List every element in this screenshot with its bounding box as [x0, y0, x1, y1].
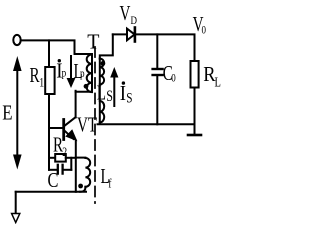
svg-text:p: p: [62, 68, 67, 80]
svg-text:V: V: [120, 2, 131, 25]
svg-text:S: S: [126, 89, 132, 106]
svg-text:2: 2: [62, 146, 67, 160]
svg-text:1: 1: [39, 76, 44, 90]
svg-text:L: L: [97, 81, 106, 104]
svg-text:p: p: [80, 68, 85, 80]
svg-text:L: L: [215, 74, 221, 90]
svg-text:T: T: [87, 31, 100, 54]
svg-text:S: S: [106, 87, 113, 105]
svg-text:0: 0: [171, 72, 175, 84]
svg-text:0: 0: [202, 24, 206, 36]
svg-text:f: f: [108, 177, 111, 191]
svg-text:VT: VT: [77, 113, 97, 136]
svg-text:E: E: [2, 102, 12, 125]
svg-text:C: C: [48, 169, 59, 192]
svg-text:D: D: [131, 15, 138, 27]
svg-text:I: I: [120, 82, 126, 105]
